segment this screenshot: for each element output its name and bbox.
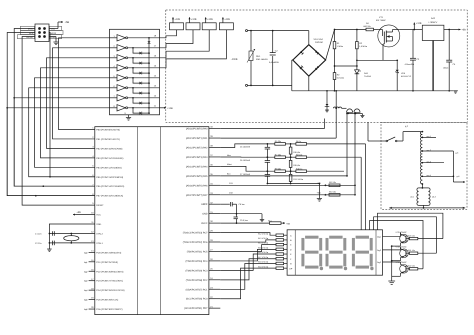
wire stub pin 37 — [209, 156, 220, 158]
pushbutton SB2 — [354, 109, 363, 114]
pin 24 PC2 — [186, 277, 214, 282]
wire stub pin 34 — [209, 184, 220, 186]
svg-text:6,8 кОм: 6,8 кОм — [337, 77, 345, 80]
pin 14 PD0 — [91, 249, 121, 254]
wire XTAL2 row — [52, 233, 95, 235]
svg-text:R9 6,8к: R9 6,8к — [293, 164, 300, 167]
diode flyback channel 6 — [132, 87, 150, 95]
resistor R14 470 — [258, 242, 287, 246]
resistor R22 base — [408, 265, 423, 270]
pin 7 PB6 — [92, 183, 124, 188]
label GND — [50, 35, 62, 39]
voltage regulator DA2 7805 — [414, 25, 444, 40]
relay coil K3 — [202, 23, 216, 30]
junction DD2-in8-PB7 — [35, 195, 37, 197]
svg-text:1,5 МОм: 1,5 МОм — [359, 45, 368, 48]
pin 8 PB7 — [92, 193, 123, 198]
svg-text:+12В: +12В — [207, 18, 213, 21]
svg-text:об.2: об.2 — [432, 196, 436, 199]
diode flyback channel 1 — [148, 37, 151, 44]
label motor unit — [405, 125, 409, 128]
svg-text:R12 470 Ом: R12 470 Ом — [258, 232, 269, 235]
svg-text:PD6 (PCINT30/OC2B/ICP): PD6 (PCINT30/OC2B/ICP) — [96, 308, 122, 311]
pin 30 AVCC — [201, 220, 213, 225]
power +12V at K4 — [222, 17, 230, 23]
wire MOSI net — [49, 33, 95, 177]
label VT4 — [396, 245, 408, 248]
wire stub pin 15 — [84, 261, 95, 264]
resistor network row 1 — [275, 140, 307, 158]
wire PC3 to R16 — [220, 254, 276, 270]
svg-text:RESET: RESET — [96, 204, 104, 207]
svg-text:(ADC1/PCINT1) PA1: (ADC1/PCINT1) PA1 — [186, 137, 208, 140]
svg-text:TL431A: TL431A — [364, 75, 372, 78]
pin 38 PA2 — [186, 145, 214, 150]
svg-text:VCC: VCC — [51, 28, 56, 31]
svg-text:об.1: об.1 — [410, 196, 414, 199]
op-amp array DD2 ULN2803A body — [110, 29, 160, 115]
svg-text:0,47x630В: 0,47x630В — [269, 61, 279, 64]
pin 22 PC0 — [186, 296, 214, 301]
wire switch feed — [368, 122, 381, 141]
wire Dig1 to VT3 collector — [383, 233, 401, 237]
wire VT3 emitter — [391, 245, 401, 247]
svg-text:100мк: 100мк — [443, 66, 448, 69]
wire COM to +12V — [148, 107, 150, 109]
label R2 — [337, 74, 345, 80]
label R4 — [364, 22, 371, 28]
buffer 2 of DD2 — [110, 45, 160, 51]
wire stub pin 39 — [209, 137, 220, 139]
pin 37 PA3 — [186, 154, 214, 159]
svg-text:PD3 (PCINT27/TXD1/INT1): PD3 (PCINT27/TXD1/INT1) — [96, 280, 123, 283]
svg-text:(ADC4/PCINT4) PA4: (ADC4/PCINT4) PA4 — [186, 165, 208, 168]
pin 15 PD1 — [91, 259, 118, 264]
pin 18 PD4 — [91, 287, 125, 292]
wire COM rail — [148, 44, 150, 114]
pin 34 PA6 — [186, 182, 214, 187]
wire PB5 to driver input 6 — [29, 88, 110, 177]
wire digit select path 1 — [378, 213, 443, 238]
svg-text:+5В: +5В — [286, 222, 290, 225]
wire sensor row 3 to right — [307, 170, 345, 172]
zener VD5 — [396, 60, 399, 91]
svg-text:PD0 (PCINT24/RXD0/T3): PD0 (PCINT24/RXD0/T3) — [96, 251, 121, 254]
wire PA6 row — [220, 184, 356, 186]
wire display top feeds — [361, 144, 365, 230]
resistor R18 470 — [258, 261, 287, 265]
label DA2 — [429, 17, 438, 24]
wire stub pin 32 — [209, 203, 220, 205]
power +5V at header — [49, 21, 69, 29]
power +12V at K1 — [172, 17, 180, 23]
capacitor filter row 3 — [220, 166, 274, 183]
motor run windings — [417, 184, 430, 209]
wire PB7 to driver input 8 — [7, 108, 109, 196]
boundary fan motor unit (dashed) — [381, 122, 467, 209]
resistor R1 — [333, 29, 336, 49]
wire PC0 to R19 — [220, 268, 276, 299]
svg-text:AVCC: AVCC — [201, 222, 208, 225]
wire stub pin 36 — [209, 165, 220, 167]
wire R3 to DA1 — [356, 49, 358, 70]
wire Dig2 to VT4 collector — [383, 247, 401, 250]
pin 9 RESET — [92, 202, 104, 207]
wire stub pin 30 — [209, 222, 220, 224]
svg-text:C2 22п: C2 22п — [35, 242, 41, 245]
capacitor C2 X-cap — [270, 53, 276, 55]
wire RESET net — [22, 37, 95, 206]
wire PB3 to driver input 4 — [41, 68, 110, 158]
zener VD6 and ground — [325, 90, 330, 112]
svg-text:+5В: +5В — [317, 191, 321, 194]
label C5 — [443, 63, 456, 70]
label VD1-VD4 — [314, 38, 324, 44]
buffer 6 of DD2 — [110, 85, 160, 91]
wire sensor row 2 to right — [307, 156, 362, 158]
transistor VT5 BC546C — [400, 263, 410, 276]
wire stub pin 33 — [209, 194, 220, 196]
svg-text:PD2 (PCINT26/RXD1/INT0): PD2 (PCINT26/RXD1/INT0) — [96, 270, 123, 273]
pin 16 PD2 — [91, 268, 123, 273]
pin 4 PB3 — [92, 155, 123, 160]
pin 3 PB2 — [92, 146, 122, 151]
wire PA1 drop — [220, 107, 337, 138]
wire PA5 row — [220, 175, 347, 177]
power +12V at DD2 COM — [160, 107, 174, 110]
wire stub pin 19 — [84, 299, 95, 302]
label VT3 — [396, 231, 408, 234]
capacitor C8 AREF — [220, 202, 244, 215]
svg-text:PB7 (PCINT15/OC3B/SCK): PB7 (PCINT15/OC3B/SCK) — [96, 195, 123, 198]
label C3 — [405, 58, 421, 66]
label RESET — [18, 35, 35, 39]
pin 36 PA4 — [186, 164, 214, 169]
capacitor filter row 2 — [220, 156, 274, 172]
label MOSI — [50, 30, 64, 34]
wire RC ground bus — [267, 183, 321, 199]
diode flyback channel 5 — [132, 77, 150, 85]
svg-text:(ADC0/PCINT0) PA0: (ADC0/PCINT0) PA0 — [186, 128, 208, 131]
resistor R20 base — [408, 235, 443, 240]
label d4 — [457, 175, 461, 178]
crystal ZQ1 — [64, 233, 79, 244]
wire DA2 out — [444, 29, 457, 31]
svg-text:+12В: +12В — [416, 22, 422, 25]
wire stub pin 22 — [209, 298, 220, 300]
wire stub pin 20 — [84, 308, 95, 311]
wire tap1 — [422, 136, 436, 138]
svg-text:R9 20к: R9 20к — [275, 167, 281, 170]
wire tap3 — [422, 162, 444, 164]
svg-text:PB1 (PCINT9/CLKO/T1): PB1 (PCINT9/CLKO/T1) — [96, 138, 120, 141]
svg-text:(TMS/PCINT19) PC3: (TMS/PCINT19) PC3 — [186, 269, 209, 272]
svg-text:C1 22п: C1 22п — [35, 233, 41, 236]
svg-text:R7 20к: R7 20к — [275, 153, 281, 156]
wire bridge plus — [326, 30, 335, 61]
svg-text:R21 10к: R21 10к — [408, 249, 415, 252]
buffer 8 of DD2 — [110, 105, 160, 111]
pin 6 PB5 — [92, 174, 123, 179]
wire motor common with arrows — [389, 207, 465, 209]
motor winding main — [420, 131, 423, 185]
label RU1 — [256, 55, 269, 61]
svg-text:(ADC7/PCINT7) PA7: (ADC7/PCINT7) PA7 — [186, 194, 208, 197]
wire digit select path 2 — [374, 217, 437, 253]
svg-text:Вд3: Вд3 — [84, 280, 87, 283]
wire PB2 to driver input 3 — [47, 58, 110, 149]
resistor R21 base — [408, 249, 436, 254]
svg-text:Вд1: Вд1 — [84, 261, 87, 264]
wire stub pin 35 — [209, 175, 220, 177]
svg-text:(TOSC1/PCINT22) PC6: (TOSC1/PCINT22) PC6 — [183, 241, 208, 244]
wire +rail — [335, 29, 379, 31]
svg-text:Dig2: Dig2 — [377, 249, 381, 252]
transistor VT1 MOSFET — [378, 25, 400, 60]
bridge rectifier VD1-VD4 — [293, 45, 326, 76]
capacitor C3 — [410, 30, 416, 92]
buffer 3 of DD2 — [110, 55, 160, 61]
ground crystal — [47, 249, 52, 251]
svg-text:R22 10к: R22 10к — [408, 265, 415, 268]
pushbutton SB1 — [347, 109, 354, 114]
svg-text:XTAL2: XTAL2 — [96, 232, 103, 235]
wire DD2 out 18 to K1 — [160, 30, 177, 38]
wire stub pin 21 — [209, 307, 220, 309]
inductor L1 — [334, 90, 347, 108]
svg-text:470мкx25В: 470мкx25В — [405, 63, 415, 66]
label VD5 — [401, 72, 411, 78]
ground buttons — [360, 114, 364, 118]
svg-text:R19 470 Ом: R19 470 Ом — [258, 265, 269, 268]
svg-text:C6 1500пФ: C6 1500пФ — [240, 159, 251, 162]
label C1 — [35, 233, 41, 236]
microcontroller DD1 ATmega164 body — [95, 127, 209, 315]
relay coil K1 — [170, 23, 184, 30]
resistor R12p pullup — [317, 181, 341, 186]
buffer 4 of DD2 — [110, 65, 160, 71]
svg-text:Вд0: Вд0 — [84, 251, 87, 254]
svg-text:R11 24 Ом: R11 24 Ом — [293, 178, 303, 181]
wire tap4 — [422, 175, 453, 177]
svg-text:1 МОм: 1 МОм — [337, 45, 344, 48]
svg-text:PB0 (PCINT8/XCK0/T0): PB0 (PCINT8/XCK0/T0) — [96, 129, 120, 132]
svg-text:AREF: AREF — [201, 203, 208, 206]
svg-text:C9 0,1мк: C9 0,1мк — [240, 219, 248, 222]
svg-text:Вд5: Вд5 — [84, 299, 87, 302]
wire VT5 emitter — [392, 275, 401, 276]
svg-text:R16 470 Ом: R16 470 Ом — [258, 251, 269, 254]
label winding 2 — [432, 196, 436, 199]
svg-text:PD5 (PCINT29/OC1A): PD5 (PCINT29/OC1A) — [96, 299, 118, 302]
pin 13 XTAL1 — [91, 240, 103, 245]
svg-text:VT4 BC546C: VT4 BC546C — [396, 245, 408, 248]
resistor R17 470 — [258, 256, 287, 260]
junction SCK-DD2-in8 — [6, 107, 8, 109]
pin 1 PB0 — [92, 127, 120, 132]
svg-text:XTAL1: XTAL1 — [96, 242, 103, 245]
pin 10 VCC — [91, 212, 101, 217]
resistor R4 — [366, 28, 374, 31]
pin 5 PB4 — [92, 164, 122, 169]
svg-text:(TOSC2/PCINT23) PC7: (TOSC2/PCINT23) PC7 — [183, 232, 208, 235]
transistor VT4 BC546C — [400, 247, 410, 260]
pin 39 PA1 — [186, 135, 214, 140]
junction MISO-DD2-in7 — [13, 97, 15, 99]
wire stub pin 28 — [209, 241, 220, 243]
label tap2 — [427, 149, 431, 152]
capacitor C2b 22pF — [49, 241, 55, 246]
wire PB0 to driver input 1 — [59, 38, 110, 130]
wire varistor branch — [250, 30, 252, 87]
digit 1 segments — [301, 236, 322, 269]
svg-text:PB4 (PCINT12/OC0B/SS): PB4 (PCINT12/OC0B/SS) — [96, 166, 122, 169]
wire MISO net — [14, 29, 95, 187]
wire DD2 out 15 to K4 — [160, 30, 227, 68]
svg-text:Вд2: Вд2 — [84, 270, 87, 273]
svg-text:R12 10к: R12 10к — [329, 181, 336, 184]
pin 21 PD7 — [184, 305, 213, 310]
varistor RU1 — [247, 49, 255, 63]
resistor R16 470 — [258, 251, 287, 255]
ground AVCC — [260, 214, 264, 222]
wire taps out — [453, 181, 465, 183]
label tap4 — [427, 174, 431, 177]
label R1 — [337, 42, 344, 48]
relay coil K4 — [219, 23, 233, 30]
wire stub pin 38 — [209, 147, 220, 149]
power +5V output — [457, 28, 466, 31]
decimal point 3 — [370, 267, 373, 270]
diode flyback channel 4 — [132, 67, 150, 75]
switch SA1 — [381, 132, 421, 142]
svg-text:R18 470 Ом: R18 470 Ом — [258, 261, 269, 264]
buffer 5 of DD2 — [110, 75, 160, 81]
svg-text:(TDI/PCINT21) PC5: (TDI/PCINT21) PC5 — [187, 250, 208, 253]
wire stub pin 23 — [209, 288, 220, 290]
wire PC1 to R18 — [220, 263, 276, 289]
label C2 — [269, 49, 279, 63]
svg-text:680 1Вт: 680 1Вт — [364, 25, 371, 28]
digit 3 segments — [352, 236, 373, 269]
wire PA0 drop — [220, 119, 324, 129]
wire stub pin 27 — [209, 250, 220, 252]
wire GND pin to crystal ground — [49, 224, 94, 249]
svg-text:VT5 BC546C: VT5 BC546C — [396, 261, 408, 264]
pin 19 PD5 — [91, 297, 118, 302]
label R3 — [359, 42, 368, 48]
decimal point 1 — [320, 267, 323, 270]
svg-text:MOSI: MOSI — [51, 32, 57, 35]
capacitor C5 — [446, 30, 452, 92]
power +12V node — [413, 22, 422, 30]
svg-text:GND: GND — [202, 213, 207, 216]
svg-text:+12В: +12В — [175, 18, 181, 21]
resistor R12 470 — [258, 232, 287, 236]
svg-text:+5В: +5В — [65, 21, 70, 24]
resistor R13p pullup — [317, 191, 341, 196]
wire R2 to 0V — [334, 80, 336, 92]
wire stub pin 24 — [209, 279, 220, 281]
wire DA2 GND — [432, 41, 434, 91]
svg-text:Dig1: Dig1 — [377, 235, 381, 238]
decimal point 2 — [344, 267, 347, 270]
svg-text:+5В: +5В — [462, 29, 467, 32]
power +5V at VCC pin — [73, 211, 95, 216]
wire C2 branch — [272, 30, 274, 87]
pin 26 PC4 — [186, 258, 214, 263]
wire bridge minus — [308, 76, 310, 91]
label VCC — [50, 26, 62, 30]
svg-text:Мин: Мин — [227, 154, 231, 157]
transistor VT3 BC546C — [400, 233, 410, 246]
resistor R14 AVCC feed — [252, 219, 290, 225]
svg-text:VCC: VCC — [96, 214, 101, 217]
wire bridge AC left to N — [292, 60, 293, 85]
svg-text:VT3 BC546C: VT3 BC546C — [396, 231, 408, 234]
capacitor C9 AVCC — [220, 214, 252, 224]
diode flyback channel 8 — [132, 107, 150, 115]
svg-text:R15 470 Ом: R15 470 Ом — [258, 246, 269, 249]
display HG1 3-digit 7-segment body — [287, 230, 382, 275]
buffer 7 of DD2 — [110, 95, 160, 101]
svg-text:R14 470 Ом: R14 470 Ом — [258, 242, 269, 245]
wire sensor row 1 to right — [307, 143, 366, 145]
svg-text:PB2 (PCINT10/INT2/AIN0): PB2 (PCINT10/INT2/AIN0) — [96, 147, 122, 150]
svg-text:+12В: +12В — [167, 107, 173, 110]
wire bridge AC top — [308, 31, 310, 45]
svg-text:Макс: Макс — [227, 163, 232, 166]
diode flyback channel 3 — [132, 57, 150, 65]
wire buttons to rows — [346, 113, 356, 195]
resistor R2 — [333, 73, 336, 80]
label winding 1 — [410, 196, 414, 199]
svg-text:R10 1к: R10 1к — [296, 167, 302, 170]
label tap3 — [427, 161, 431, 164]
pin 33 PA7 — [186, 192, 214, 197]
svg-text:R13 470 Ом: R13 470 Ом — [258, 237, 269, 240]
label SCK — [21, 30, 35, 34]
wire SCK net — [7, 33, 95, 196]
ground at header — [49, 37, 59, 45]
svg-text:Dig3: Dig3 — [377, 261, 381, 264]
wire PA7 row — [220, 194, 356, 196]
terminal mains L — [246, 30, 309, 32]
resistor R19 470 — [258, 265, 287, 269]
svg-text:~220В: ~220В — [231, 58, 238, 61]
svg-text:R5 20к: R5 20к — [275, 140, 281, 143]
label C2b — [35, 242, 41, 245]
svg-text:PB6 (PCINT14/OC3A/MISO): PB6 (PCINT14/OC3A/MISO) — [96, 185, 124, 188]
wire Dig3 to VT5 collector — [383, 261, 401, 264]
digit 2 segments — [326, 236, 347, 269]
label net Sb2 — [229, 192, 234, 195]
wire R1-R2 node — [334, 49, 357, 73]
svg-text:GND: GND — [96, 223, 101, 226]
pin 29 PC7 — [183, 230, 214, 235]
svg-text:PD4 (PCINT28/XCK1/OC1B): PD4 (PCINT28/XCK1/OC1B) — [96, 289, 124, 292]
svg-text:R6 1к: R6 1к — [296, 140, 301, 143]
svg-text:L7805CV: L7805CV — [429, 21, 438, 24]
ground DD2 pin 9 — [125, 112, 132, 120]
buffer 1 of DD2 — [110, 35, 160, 41]
svg-text:PB5 (PCINT13/ICP3/MOSI): PB5 (PCINT13/ICP3/MOSI) — [96, 176, 123, 179]
svg-text:FNR-14K431: FNR-14K431 — [256, 58, 269, 61]
label ~220V — [231, 58, 238, 61]
pin 20 PD6 — [91, 306, 123, 311]
svg-text:IRF 7N60C: IRF 7N60C — [376, 19, 387, 22]
label net Max — [227, 163, 232, 166]
